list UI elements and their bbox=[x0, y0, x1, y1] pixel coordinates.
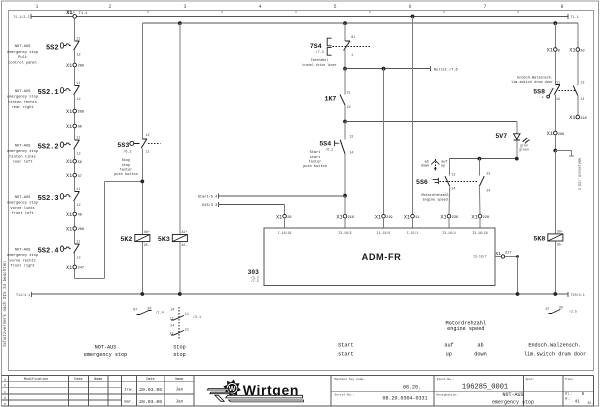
title block grid bbox=[2, 376, 594, 406]
terminal X1 11 bbox=[404, 214, 420, 228]
svg-text:5V7: 5V7 bbox=[495, 133, 507, 140]
svg-text:5S2: 5S2 bbox=[46, 44, 59, 52]
terminal X1 289 right bbox=[547, 131, 564, 137]
svg-text:217: 217 bbox=[505, 252, 511, 256]
svg-text:5S2.3: 5S2.3 bbox=[38, 195, 59, 203]
svg-text:Stop: Stop bbox=[122, 159, 131, 163]
wire X1 289 to node bbox=[553, 135, 557, 153]
svg-text:247: 247 bbox=[78, 267, 84, 271]
limit switch 5S8 contact 11-12 bbox=[533, 81, 560, 102]
terminal X1 236 bbox=[440, 214, 458, 228]
svg-text:7S4: 7S4 bbox=[310, 43, 322, 50]
svg-text:Taster: Taster bbox=[309, 159, 322, 164]
svg-text:X1: X1 bbox=[404, 214, 410, 220]
svg-text:I-15/1: I-15/1 bbox=[407, 231, 419, 235]
label 7S4 travel drive lever bbox=[302, 58, 337, 67]
svg-text:4: 4 bbox=[258, 4, 261, 10]
label limit switch drum door bbox=[511, 75, 553, 85]
svg-text:48: 48 bbox=[78, 214, 82, 218]
svg-text:NOT-AUS: NOT-AUS bbox=[502, 392, 523, 398]
svg-text:236: 236 bbox=[452, 216, 458, 220]
svg-text:I3-16/4: I3-16/4 bbox=[442, 231, 455, 235]
push button 5S4 start bbox=[319, 135, 353, 155]
svg-text:X1: X1 bbox=[336, 214, 342, 220]
svg-text:228: 228 bbox=[483, 216, 489, 220]
wire 5S8 upper bbox=[555, 51, 578, 85]
relay contact 1K7 bbox=[325, 92, 351, 110]
svg-text:24: 24 bbox=[486, 189, 490, 193]
svg-text:85-: 85- bbox=[557, 243, 563, 247]
wire LED line bbox=[345, 121, 517, 123]
svg-text:green: green bbox=[519, 148, 529, 152]
label 5S4 start push button bbox=[303, 150, 327, 169]
svg-text:down: down bbox=[474, 352, 486, 358]
svg-text:Bl.: Bl. bbox=[588, 401, 594, 405]
node Nullst branch bbox=[343, 67, 347, 71]
svg-text:11: 11 bbox=[76, 82, 80, 86]
terminal X1 47 bbox=[66, 173, 82, 179]
svg-text:push button: push button bbox=[114, 172, 138, 177]
wire T1.1 top bus bbox=[13, 14, 578, 20]
svg-text:X1: X1 bbox=[547, 48, 553, 54]
svg-text:X1: X1 bbox=[495, 251, 501, 257]
svg-text:Taster: Taster bbox=[120, 167, 133, 172]
svg-text:X1: X1 bbox=[276, 214, 282, 220]
label 5S2.4 bbox=[7, 248, 38, 268]
node start line junction bbox=[343, 194, 347, 198]
svg-text:NOT-AUS: NOT-AUS bbox=[15, 248, 31, 252]
svg-text:Start: Start bbox=[338, 343, 354, 349]
svg-text:X1: X1 bbox=[66, 10, 72, 16]
svg-text:9: 9 bbox=[558, 49, 560, 53]
svg-text:rear right: rear right bbox=[12, 105, 34, 110]
svg-text:X1: X1 bbox=[66, 265, 72, 271]
svg-text:travel drive lever: travel drive lever bbox=[302, 63, 337, 67]
svg-text:87: 87 bbox=[133, 309, 137, 313]
svg-text:11: 11 bbox=[76, 241, 80, 245]
svg-text:X1: X1 bbox=[66, 159, 72, 165]
svg-text:5S6: 5S6 bbox=[416, 179, 428, 186]
emergency stop switch 5S2.1 bbox=[38, 82, 81, 102]
svg-text:down: down bbox=[421, 164, 429, 169]
svg-text:A: A bbox=[542, 96, 544, 99]
wire 5S3 branch bbox=[141, 23, 143, 294]
svg-text:28.03.06: 28.03.06 bbox=[139, 399, 162, 405]
svg-text:W.:: W.: bbox=[565, 396, 571, 400]
svg-text:T1.1: T1.1 bbox=[571, 16, 579, 20]
svg-text:5S4: 5S4 bbox=[319, 141, 331, 148]
svg-text:13: 13 bbox=[349, 135, 353, 139]
emergency stop switch 5S2.4 bbox=[38, 241, 81, 261]
svg-text:auf: auf bbox=[441, 159, 447, 164]
svg-text:12: 12 bbox=[556, 98, 560, 102]
svg-text:X1: X1 bbox=[66, 63, 72, 69]
svg-text:11: 11 bbox=[556, 81, 560, 85]
svg-text:12: 12 bbox=[146, 134, 150, 138]
svg-text:engine speed: engine speed bbox=[447, 326, 484, 332]
caption NOT-AUS bbox=[84, 344, 128, 358]
label 5S2.1 bbox=[7, 90, 38, 110]
svg-text:front right: front right bbox=[10, 264, 34, 269]
wire Start/5.4 line bbox=[198, 193, 345, 199]
caption ab down bbox=[474, 343, 486, 358]
svg-text:ab: ab bbox=[424, 159, 428, 164]
label 5S3 stop push button bbox=[114, 159, 138, 177]
svg-text:NOT-AUS: NOT-AUS bbox=[15, 144, 31, 148]
svg-text:X1: X1 bbox=[66, 124, 72, 130]
svg-text:1: 1 bbox=[351, 54, 353, 58]
svg-text:I3-16/18: I3-16/18 bbox=[472, 231, 487, 235]
svg-text:vorne links: vorne links bbox=[10, 206, 34, 211]
terminal X1 218 bbox=[569, 115, 586, 121]
svg-text:front left: front left bbox=[12, 211, 34, 216]
svg-text:Modification: Modification bbox=[24, 377, 48, 382]
svg-text:control panel: control panel bbox=[8, 60, 38, 65]
contact mirror 5K8 87-30 bbox=[546, 306, 577, 314]
svg-text:6: 6 bbox=[408, 4, 411, 10]
wire Nullst line bbox=[345, 66, 458, 72]
selector switch 5S6 contact 13-14 bbox=[445, 159, 456, 215]
svg-text:emergency stop: emergency stop bbox=[492, 399, 534, 405]
node X1 217 bus bbox=[516, 292, 520, 296]
wire 5K3 branch bbox=[179, 23, 181, 294]
wire T11 bottom bus bbox=[16, 292, 585, 298]
svg-text:ab: ab bbox=[477, 343, 483, 349]
svg-text:24: 24 bbox=[347, 106, 351, 110]
contact mirror 5K2 87-30 bbox=[133, 308, 164, 316]
svg-text:14: 14 bbox=[349, 151, 353, 155]
node after-stop bus to 7S4 bbox=[343, 21, 347, 25]
terminal X1 247 bbox=[66, 265, 84, 271]
svg-text:14: 14 bbox=[580, 98, 584, 102]
ADM-FR pin labels bbox=[278, 231, 488, 258]
label 5S2 bbox=[7, 45, 38, 65]
svg-text:10: 10 bbox=[580, 49, 584, 53]
svg-text:7: 7 bbox=[483, 4, 486, 10]
emergency stop switch 5S2.3 bbox=[38, 188, 81, 208]
svg-text:5S3: 5S3 bbox=[117, 142, 129, 149]
relay coil 5K3 bbox=[158, 230, 187, 247]
svg-text:stop: stop bbox=[173, 352, 185, 358]
wire emergency stop chain bbox=[75, 18, 143, 279]
svg-text:Machine Key Code:: Machine Key Code: bbox=[335, 377, 366, 381]
svg-text:T20/4.1: T20/4.1 bbox=[571, 293, 585, 298]
svg-text:12: 12 bbox=[77, 53, 81, 57]
svg-text:lim.switch drum door: lim.switch drum door bbox=[511, 80, 553, 85]
terminal X1 10 bbox=[569, 48, 584, 54]
controller ADM-FR box bbox=[264, 228, 495, 286]
svg-text:lim.switch drum door: lim.switch drum door bbox=[524, 352, 586, 358]
svg-text:Jax: Jax bbox=[176, 389, 184, 393]
node 5K3 bus bbox=[178, 292, 182, 296]
svg-text:5S2.1: 5S2.1 bbox=[38, 89, 59, 97]
terminal X1 289 bbox=[66, 63, 84, 69]
svg-text:Designation:: Designation: bbox=[437, 393, 459, 397]
svg-text:Start: Start bbox=[310, 150, 321, 155]
svg-text:/6.2: /6.2 bbox=[123, 149, 131, 154]
svg-text:grün: grün bbox=[520, 143, 528, 147]
svg-text:5K8: 5K8 bbox=[533, 236, 545, 243]
svg-text:A1+: A1+ bbox=[182, 230, 188, 234]
label 5S2.3 bbox=[7, 196, 38, 216]
svg-text:21: 21 bbox=[185, 328, 189, 332]
svg-text:87: 87 bbox=[546, 308, 550, 312]
svg-text:T11/4.1: T11/4.1 bbox=[16, 293, 30, 298]
wire K15/3.3 line bbox=[202, 202, 284, 214]
svg-text:12: 12 bbox=[77, 98, 81, 102]
selector switch 5S6 contact 23-24 bbox=[479, 159, 490, 215]
svg-text:2: 2 bbox=[108, 4, 111, 10]
svg-text:A2-: A2- bbox=[182, 243, 188, 247]
svg-text:ADM-FR: ADM-FR bbox=[362, 252, 402, 262]
LED 5V7 green bbox=[495, 133, 530, 152]
svg-text:start: start bbox=[310, 155, 321, 160]
svg-text:I3-16/5: I3-16/5 bbox=[338, 231, 351, 235]
svg-text:auf: auf bbox=[444, 343, 453, 349]
svg-text:85-: 85- bbox=[144, 243, 150, 247]
svg-text:13: 13 bbox=[451, 173, 455, 177]
svg-text:engine speed: engine speed bbox=[423, 198, 448, 203]
svg-text:X1: X1 bbox=[569, 115, 575, 121]
contact mirror 5K3 changeover 11-12-14 bbox=[169, 307, 201, 339]
svg-text:up: up bbox=[441, 165, 445, 169]
svg-text:NOT-AUS: NOT-AUS bbox=[15, 45, 31, 49]
svg-text:up: up bbox=[446, 352, 452, 358]
svg-text:21: 21 bbox=[347, 92, 351, 96]
svg-text:Pult: Pult bbox=[18, 55, 27, 60]
svg-text:Spot:: Spot: bbox=[526, 378, 535, 381]
svg-text:1: 1 bbox=[35, 4, 38, 10]
svg-text:13: 13 bbox=[580, 81, 584, 85]
svg-text:Serial-No.:: Serial-No.: bbox=[335, 393, 355, 397]
svg-text:c: c bbox=[4, 390, 6, 394]
title block machine data bbox=[335, 377, 594, 405]
svg-text:emergency stop: emergency stop bbox=[7, 202, 38, 206]
svg-text:Nullst./7.6: Nullst./7.6 bbox=[434, 67, 458, 72]
node after-stop bus to 5K3 bbox=[178, 21, 182, 25]
svg-text:X1: X1 bbox=[66, 227, 72, 233]
svg-text:Bl.:: Bl.: bbox=[565, 392, 573, 396]
limit switch 5S8 contact 13-14 bbox=[559, 81, 585, 102]
terminal X1 T1.1 bbox=[66, 10, 87, 18]
svg-text:/3.1: /3.1 bbox=[193, 315, 201, 320]
caption engine speed bbox=[446, 320, 486, 332]
contact mirror 5K3 changeover 21-22-24 bbox=[169, 324, 188, 336]
svg-text:Name: Name bbox=[94, 378, 102, 382]
svg-text:216: 216 bbox=[348, 216, 354, 220]
svg-text:47: 47 bbox=[78, 175, 82, 179]
wire to 5K8 bbox=[554, 151, 556, 295]
Wirtgen logo bbox=[207, 380, 303, 402]
wire Walzensch branch bbox=[555, 151, 581, 191]
terminal X1 216 bbox=[336, 214, 354, 228]
svg-text:Plan: Plan bbox=[565, 377, 572, 381]
svg-text:5S2.4: 5S2.4 bbox=[38, 248, 59, 256]
wire 5S4 branch bbox=[344, 122, 346, 196]
svg-text:Fahrhebel: Fahrhebel bbox=[311, 58, 328, 62]
svg-text:5: 5 bbox=[333, 4, 336, 10]
svg-text:Schutzvermerk nach DIN 34 beac: Schutzvermerk nach DIN 34 beachten bbox=[3, 261, 8, 347]
label 5S2.2 bbox=[7, 144, 38, 164]
svg-text:b: b bbox=[4, 384, 6, 388]
terminal X1 288 bbox=[66, 109, 84, 115]
caption lim switch drum door bbox=[524, 343, 586, 358]
svg-text:X1: X1 bbox=[471, 214, 477, 220]
svg-text:T1.1: T1.1 bbox=[79, 12, 88, 16]
svg-text:08.20.0304-0331: 08.20.0304-0331 bbox=[382, 396, 427, 402]
svg-text:5S2.2: 5S2.2 bbox=[38, 144, 59, 152]
wire 7S4 branch bbox=[344, 23, 346, 68]
svg-text:X1: X1 bbox=[375, 214, 381, 220]
svg-text:14: 14 bbox=[170, 308, 174, 312]
relay coil 5K2 bbox=[120, 230, 149, 247]
svg-text:61: 61 bbox=[351, 36, 355, 40]
svg-text:a: a bbox=[4, 378, 6, 382]
svg-text:219: 219 bbox=[386, 216, 392, 220]
svg-text:emergency stop: emergency stop bbox=[7, 254, 38, 258]
svg-text:12: 12 bbox=[77, 257, 81, 261]
svg-text:196285_0001: 196285_0001 bbox=[462, 383, 508, 391]
svg-text:Date: Date bbox=[147, 378, 155, 382]
svg-text:41: 41 bbox=[575, 400, 581, 404]
svg-text:rear left: rear left bbox=[13, 160, 33, 165]
terminal X1 208 bbox=[66, 227, 84, 233]
terminal X1 217 bbox=[495, 251, 519, 294]
svg-text:Walzensch./23.1: Walzensch./23.1 bbox=[577, 159, 582, 191]
svg-text:d: d bbox=[4, 396, 6, 400]
svg-text:X1: X1 bbox=[66, 212, 72, 218]
node right column top bbox=[553, 21, 557, 25]
switch 7S4 travel drive lever bbox=[310, 36, 372, 58]
svg-text:12: 12 bbox=[77, 204, 81, 208]
svg-text:60: 60 bbox=[78, 126, 82, 130]
svg-text:X1: X1 bbox=[66, 173, 72, 179]
label 5S6 engine speed bbox=[422, 193, 449, 202]
svg-text:/6.2: /6.2 bbox=[325, 147, 333, 152]
node 5K8 bus bbox=[553, 292, 557, 296]
svg-text:K15/3.3: K15/3.3 bbox=[202, 203, 217, 208]
svg-text:I1-18/9: I1-18/9 bbox=[377, 231, 390, 235]
svg-text:24: 24 bbox=[170, 324, 174, 328]
svg-text:Endsch.Walzensch.: Endsch.Walzensch. bbox=[528, 343, 581, 349]
svg-text:86+: 86+ bbox=[557, 230, 563, 234]
svg-text:289: 289 bbox=[78, 65, 84, 69]
svg-text:push button: push button bbox=[303, 164, 327, 169]
svg-text:X1: X1 bbox=[547, 131, 553, 137]
svg-text:1K7: 1K7 bbox=[325, 96, 337, 103]
emergency stop switch 5S2.2 bbox=[38, 137, 81, 157]
svg-text:Irw.: Irw. bbox=[124, 388, 134, 393]
svg-text:3: 3 bbox=[183, 4, 186, 10]
svg-text:11: 11 bbox=[76, 188, 80, 192]
svg-text:Motordrehzahl: Motordrehzahl bbox=[422, 193, 449, 198]
svg-text:26: 26 bbox=[287, 216, 291, 220]
svg-text:5K3: 5K3 bbox=[158, 236, 170, 243]
svg-text:NOT-AUS: NOT-AUS bbox=[95, 344, 117, 350]
column numbers bbox=[35, 4, 563, 13]
svg-text:11: 11 bbox=[76, 37, 80, 41]
svg-text:I-16/16: I-16/16 bbox=[278, 231, 291, 235]
svg-text:289: 289 bbox=[558, 133, 564, 137]
svg-text:e: e bbox=[4, 402, 6, 406]
emergency stop switch 5S2 bbox=[46, 37, 81, 57]
svg-text:208: 208 bbox=[78, 228, 84, 232]
svg-text:11: 11 bbox=[185, 313, 189, 317]
svg-text:Date: Date bbox=[74, 378, 82, 382]
svg-text:29.03.06: 29.03.06 bbox=[139, 387, 162, 393]
svg-text:stop: stop bbox=[122, 164, 131, 168]
svg-text:emergency stop: emergency stop bbox=[7, 96, 38, 100]
svg-text:/7.3: /7.3 bbox=[316, 50, 324, 55]
svg-text:start: start bbox=[338, 352, 354, 358]
label 303 bbox=[248, 269, 259, 283]
wire 5S8 lower bbox=[555, 95, 578, 132]
terminal X1 59 bbox=[66, 159, 82, 165]
svg-text:218: 218 bbox=[580, 117, 586, 121]
svg-text:Stop: Stop bbox=[173, 344, 185, 350]
svg-text:Name: Name bbox=[175, 378, 183, 382]
svg-text:hinten links: hinten links bbox=[9, 154, 36, 159]
svg-text:59: 59 bbox=[78, 161, 82, 165]
svg-text:5K2: 5K2 bbox=[120, 236, 132, 243]
svg-text:/2.5: /2.5 bbox=[569, 310, 577, 315]
svg-text:Ident-No.:: Ident-No.: bbox=[437, 377, 455, 381]
caption auf up bbox=[444, 343, 453, 358]
svg-text:hinten rechts: hinten rechts bbox=[8, 100, 37, 105]
push button 5S3 bbox=[117, 134, 160, 154]
svg-text:X1: X1 bbox=[569, 48, 575, 54]
svg-text:08.20.: 08.20. bbox=[403, 384, 421, 390]
node 5S3 output bbox=[140, 180, 144, 184]
vertical note Schutzvermerk nach DIN 34 beachten bbox=[3, 261, 8, 347]
wire X1 216 feed bbox=[344, 196, 346, 215]
svg-text:X1: X1 bbox=[66, 109, 72, 115]
svg-text:NOT-AUS: NOT-AUS bbox=[15, 90, 31, 94]
svg-text:emergency stop: emergency stop bbox=[84, 352, 128, 358]
svg-text:11: 11 bbox=[76, 137, 80, 141]
node 5K2 bus bbox=[140, 292, 144, 296]
wire engine speed line bbox=[450, 157, 517, 161]
svg-text:14: 14 bbox=[451, 188, 455, 192]
terminal X1 219 bbox=[375, 214, 393, 228]
svg-text:/7.2: /7.2 bbox=[251, 279, 259, 283]
wire X1 219 branch bbox=[382, 67, 386, 215]
svg-text:11: 11 bbox=[146, 151, 150, 155]
wire after-stop bus bbox=[142, 23, 578, 48]
terminal X1 60 bbox=[66, 124, 82, 130]
svg-text:11: 11 bbox=[415, 216, 419, 220]
svg-text:Endsch.Walzensch.: Endsch.Walzensch. bbox=[517, 75, 553, 80]
selector 5S6 actuator bbox=[416, 178, 479, 186]
title block revision rows bbox=[124, 387, 183, 405]
svg-text:5S8: 5S8 bbox=[533, 88, 545, 95]
svg-text:emergency stop: emergency stop bbox=[7, 51, 38, 55]
svg-text:mor.: mor. bbox=[124, 400, 134, 405]
terminal X1 26 bbox=[276, 214, 292, 228]
title block headers bbox=[4, 377, 183, 406]
svg-text:23: 23 bbox=[486, 173, 490, 177]
wire X1 11 branch bbox=[411, 15, 415, 215]
wire right column upper bbox=[554, 23, 556, 48]
svg-text:12: 12 bbox=[77, 153, 81, 157]
relay coil 5K8 bbox=[533, 230, 562, 247]
wire 1K7 branch bbox=[344, 69, 346, 122]
caption Stop bbox=[173, 344, 185, 358]
terminal X1 228 bbox=[471, 214, 489, 228]
svg-text:8: 8 bbox=[560, 4, 563, 10]
svg-text:NOT-AUS: NOT-AUS bbox=[15, 196, 31, 200]
svg-text:/1.4: /1.4 bbox=[156, 311, 164, 316]
